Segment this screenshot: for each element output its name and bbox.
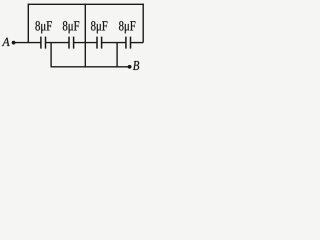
wire: middle vertical from top bus crossing main wire down to bottom bus xyxy=(84,4,86,67)
capacitor C2 plates (8uF) xyxy=(68,37,70,49)
wire: between C1 and C2 xyxy=(46,42,70,44)
wire: top bus connecting nodes A-side, middle, right-side xyxy=(28,3,144,5)
wire: between C2 and C3 xyxy=(74,42,97,44)
capacitor C1 plates (8uF) xyxy=(40,37,42,49)
capacitor C4 plates (8uF) xyxy=(125,37,127,49)
label B (italic) xyxy=(133,61,139,70)
node B terminal dot xyxy=(128,65,132,69)
capacitor C3 plates (8uF) xyxy=(96,37,98,49)
value label 8uF for C2 xyxy=(63,21,79,33)
label A (italic) xyxy=(2,38,10,46)
background paper xyxy=(0,0,178,80)
wire: drop from node between C1,C2 to bottom bus xyxy=(50,43,52,67)
value label 8uF for C3 xyxy=(91,21,107,33)
wire: drop from node between C3,C4 to bottom bus xyxy=(116,43,118,67)
value label 8uF for C1 xyxy=(35,21,51,33)
wire: from C4 to right corner xyxy=(131,42,144,44)
wire: between C3 and C4 xyxy=(102,42,126,44)
wire: bottom bus running to node B xyxy=(51,66,130,68)
wire: right vertical from top bus down to main wire right end xyxy=(142,4,144,43)
wire: main horizontal from node A dot to capacitor C1 xyxy=(14,42,41,44)
wire: left vertical from top bus down to main wire at node A side xyxy=(27,4,29,43)
node A terminal dot xyxy=(12,41,16,45)
value label 8uF for C4 xyxy=(119,21,135,33)
